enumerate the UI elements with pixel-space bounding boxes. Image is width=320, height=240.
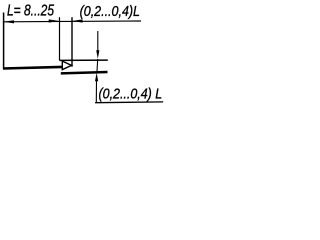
leader line up-arrow [95, 79, 97, 103]
cone (tinned wire tip) [62, 61, 71, 70]
arrowhead left (dim L) [3, 20, 14, 23]
wire [3, 67, 62, 69]
extension line 2 [71, 17, 73, 66]
leader line down-arrow [97, 31, 99, 52]
leader line middle segment [96, 59, 99, 73]
svg-text:L= 8...25: L= 8...25 [7, 3, 54, 20]
extension line left [3, 13, 5, 69]
arrowhead left-pointing at ext line 2 [72, 19, 83, 22]
top contour line [59, 59, 107, 61]
arrowhead down [96, 50, 99, 59]
dimension line (shared, top) [3, 20, 141, 23]
arrowhead up [95, 73, 98, 82]
svg-text:(0,2...0,4)L: (0,2...0,4)L [80, 3, 140, 20]
bottom contour line [61, 72, 108, 73]
extension line 1 [59, 17, 61, 60]
arrowhead right at ext line 1 [49, 19, 60, 22]
svg-text:(0,2...0,4) L: (0,2...0,4) L [99, 87, 163, 103]
shelf line bottom-right [95, 101, 163, 104]
